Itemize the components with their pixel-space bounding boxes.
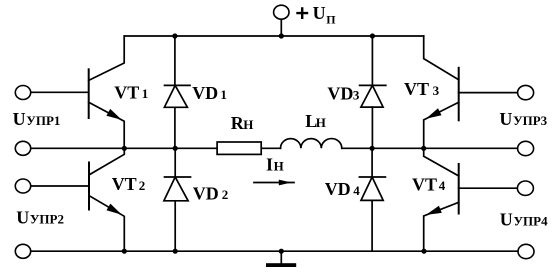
svg-text:VT: VT: [404, 79, 429, 99]
svg-text:УПР1: УПР1: [26, 113, 60, 128]
svg-text:УПР4: УПР4: [514, 214, 549, 229]
svg-text:УПР2: УПР2: [30, 211, 64, 226]
svg-text:2: 2: [139, 178, 146, 193]
svg-text:1: 1: [142, 86, 149, 101]
svg-text:U: U: [500, 210, 513, 230]
svg-text:3: 3: [433, 83, 440, 98]
svg-text:4: 4: [439, 178, 446, 193]
svg-text:VT: VT: [112, 174, 137, 194]
svg-text:П: П: [326, 12, 336, 26]
svg-text:2: 2: [222, 187, 229, 202]
svg-text:3: 3: [353, 88, 360, 103]
svg-text:I: I: [266, 155, 273, 175]
svg-text:4: 4: [353, 183, 360, 198]
svg-text:U: U: [499, 109, 512, 129]
svg-text:VD: VD: [325, 179, 351, 199]
svg-text:U: U: [313, 3, 326, 23]
svg-text:Н: Н: [243, 117, 253, 132]
svg-text:VD: VD: [193, 183, 219, 203]
svg-text:U: U: [16, 207, 29, 227]
svg-text:Н: Н: [316, 115, 326, 130]
svg-text:VT: VT: [412, 174, 437, 194]
svg-text:VT: VT: [114, 82, 139, 102]
svg-text:U: U: [13, 109, 26, 129]
svg-text:Н: Н: [274, 159, 284, 174]
svg-text:1: 1: [220, 87, 227, 102]
svg-text:VD: VD: [192, 83, 218, 103]
svg-text:УПР3: УПР3: [513, 113, 548, 128]
svg-text:VD: VD: [327, 84, 353, 104]
